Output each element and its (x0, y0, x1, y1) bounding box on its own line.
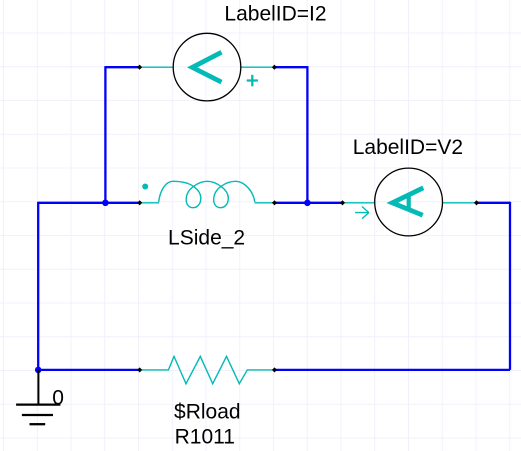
pin (137, 367, 142, 372)
junction (35, 367, 42, 374)
pin (474, 200, 479, 205)
wire (306, 66, 308, 203)
pin (340, 200, 345, 205)
pin (272, 65, 277, 70)
svg-text:LSide_2: LSide_2 (168, 226, 245, 249)
wire (274, 66, 307, 68)
wire (275, 202, 343, 204)
svg-text:LabelID=I2: LabelID=I2 (224, 2, 326, 25)
wire (509, 202, 511, 370)
svg-text:$Rload: $Rload (174, 400, 241, 423)
wire (477, 202, 511, 204)
pin (272, 200, 277, 205)
wire (38, 202, 140, 204)
svg-text:0: 0 (52, 387, 64, 410)
inductor LSide_2 (140, 181, 275, 207)
svg-text:R1011: R1011 (175, 425, 235, 448)
wire (38, 369, 140, 371)
pin (137, 200, 142, 205)
wire (105, 66, 139, 68)
voltage meter V2 (343, 168, 477, 236)
wire (37, 202, 39, 370)
wire (104, 66, 106, 203)
junction (304, 200, 311, 207)
ground (16, 370, 60, 424)
pin (137, 65, 142, 70)
pin (272, 367, 277, 372)
junction (102, 200, 109, 207)
current meter I2 (140, 33, 275, 101)
wire (275, 369, 511, 371)
svg-text:LabelID=V2: LabelID=V2 (353, 136, 463, 159)
resistor Rload (140, 356, 275, 383)
